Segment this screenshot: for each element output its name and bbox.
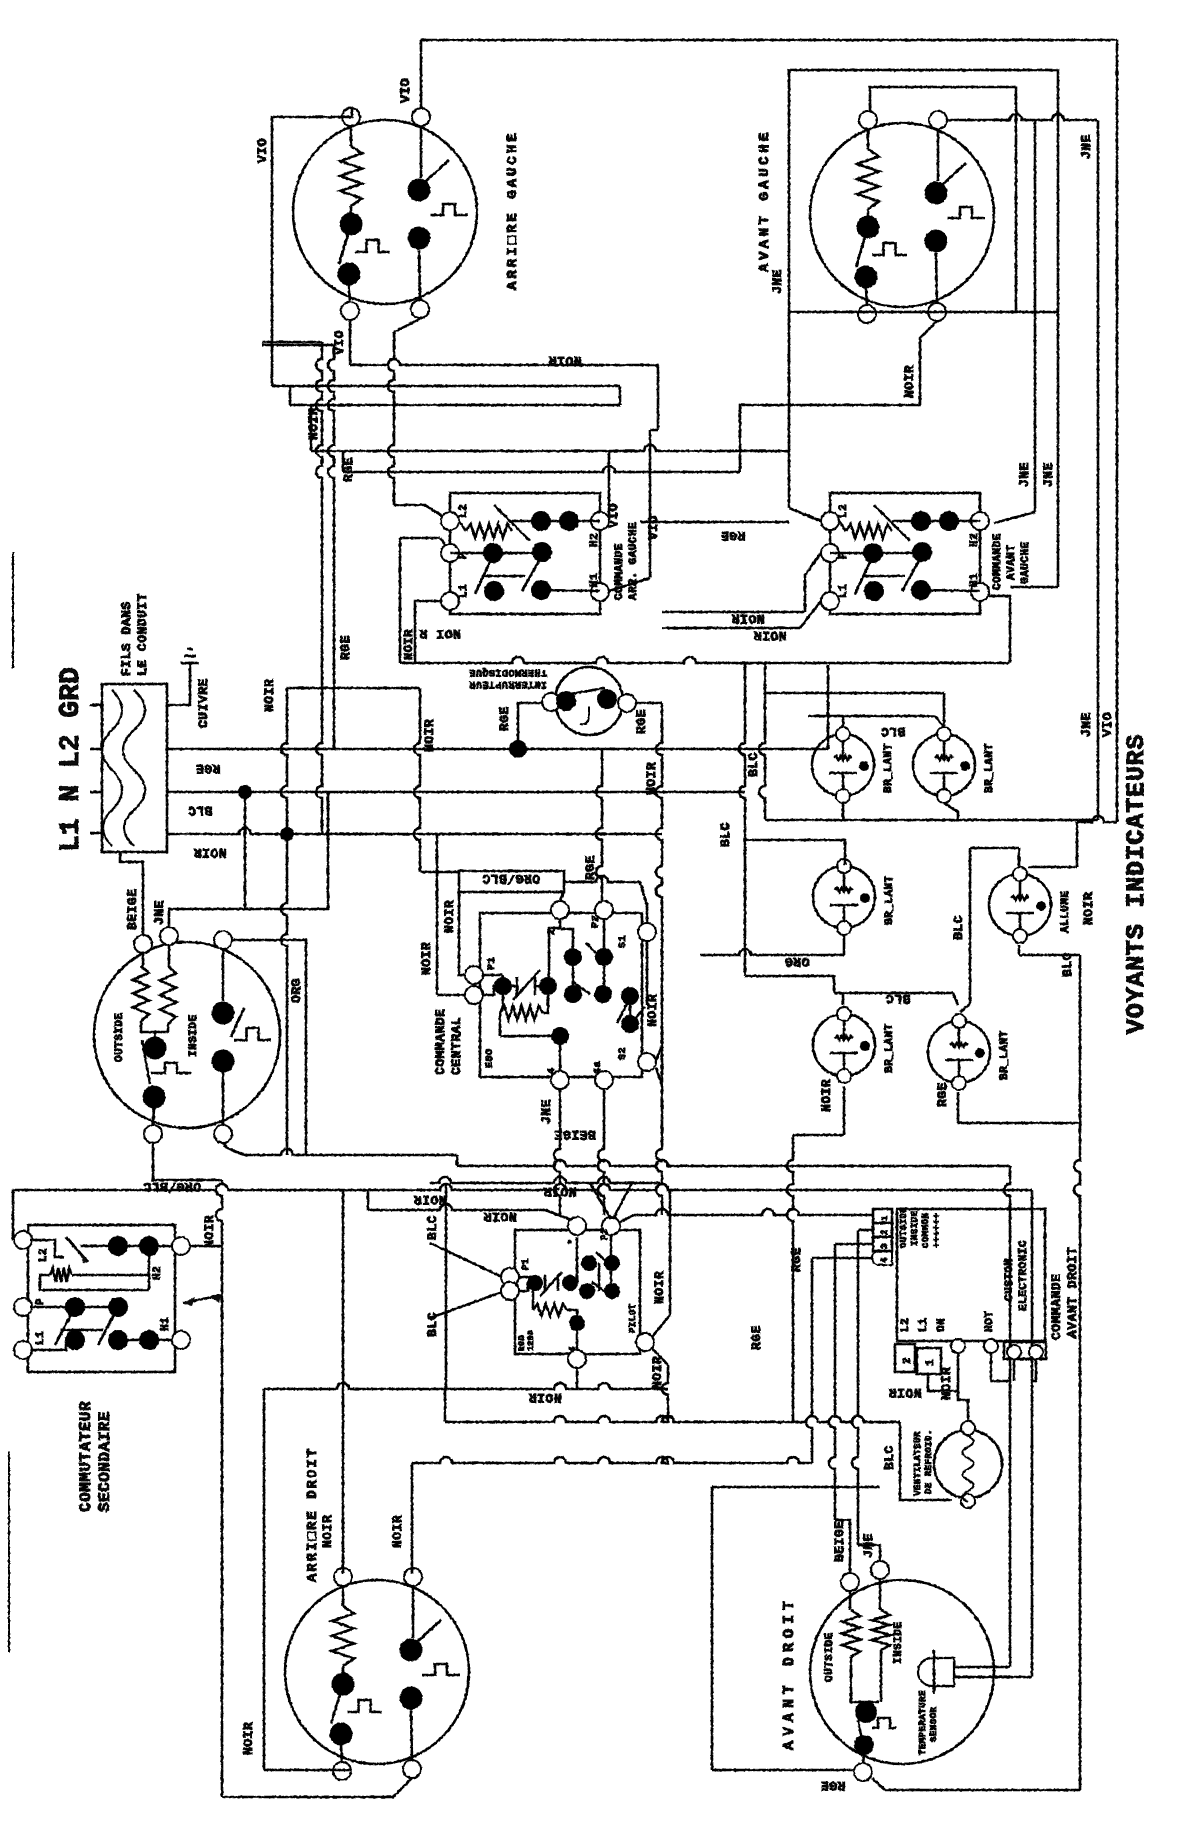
svg-text:NOIR: NOIR bbox=[939, 1367, 954, 1400]
wire VIO top-right to border bbox=[420, 40, 423, 108]
top border wire bbox=[421, 39, 1117, 42]
svg-text:RGE: RGE bbox=[749, 1325, 764, 1350]
wire from terminal box 1 bbox=[928, 1374, 958, 1391]
svg-text:AVANT DROIT: AVANT DROIT bbox=[781, 1596, 798, 1750]
svg-text:S2: S2 bbox=[618, 1047, 629, 1060]
svg-text:JNE: JNE bbox=[1079, 134, 1094, 159]
wire NOIR long run 1215 bbox=[367, 1190, 370, 1210]
svg-text:NOIR: NOIR bbox=[548, 353, 581, 368]
switch front-right bbox=[855, 1701, 877, 1723]
wire NOIR run 1155-1166 bbox=[456, 1155, 459, 1166]
bottom terminals avant droit control bbox=[951, 1339, 965, 1353]
svg-text:L1 N L2 GRD: L1 N L2 GRD bbox=[56, 667, 87, 852]
svg-text:ORG: ORG bbox=[289, 978, 304, 1003]
indicator lamp BR_LANT 4 bbox=[813, 1014, 875, 1076]
svg-text:L1: L1 bbox=[918, 1318, 930, 1332]
svg-text:RGE: RGE bbox=[821, 1778, 846, 1793]
wire BLC diagonals bbox=[430, 1243, 502, 1277]
page edge artifact bbox=[8, 1452, 10, 1652]
wire H1 to NOIR run bbox=[989, 596, 1010, 663]
svg-text:NOIR: NOIR bbox=[650, 1356, 665, 1389]
svg-text:RGE: RGE bbox=[338, 635, 353, 660]
connector pins bbox=[873, 1209, 892, 1223]
resistors front-right bbox=[849, 1591, 852, 1610]
wire NOIR long run 1190 bbox=[12, 1190, 15, 1240]
svg-text:RGE: RGE bbox=[789, 1247, 804, 1272]
wire VIO bottom-left to NOIR run bbox=[349, 321, 352, 365]
svg-text:JNE: JNE bbox=[1079, 712, 1094, 737]
svg-text:VIO: VIO bbox=[255, 138, 270, 163]
burner element ARRIERE GAUCHE bbox=[293, 120, 477, 304]
svg-text:NOIR: NOIR bbox=[528, 1390, 561, 1405]
svg-text:4a: 4a bbox=[593, 1061, 604, 1074]
svg-text:1200: 1200 bbox=[527, 1330, 536, 1351]
right border wire VIO bbox=[1116, 40, 1119, 822]
wire BEIGE bbox=[120, 852, 143, 936]
burner element centre (outside/inside) bbox=[94, 942, 280, 1128]
svg-text:RGE: RGE bbox=[497, 706, 512, 731]
svg-text:NOIR: NOIR bbox=[442, 900, 457, 933]
wire NOIR to P bbox=[805, 553, 821, 612]
svg-text:BLC: BLC bbox=[718, 822, 733, 847]
svg-text:FILS DANS: FILS DANS bbox=[119, 601, 134, 676]
svg-text:CUIVRE: CUIVRE bbox=[196, 678, 211, 728]
switch centre-right bbox=[222, 949, 225, 1001]
svg-text:SENSOR: SENSOR bbox=[929, 1706, 939, 1742]
wire NOIR under rear-right box bbox=[445, 1183, 448, 1389]
svg-text:NOIR: NOIR bbox=[413, 1192, 446, 1207]
svg-text:BEIGE: BEIGE bbox=[554, 1127, 596, 1142]
svg-text:H2: H2 bbox=[969, 533, 981, 547]
svg-text:JNE: JNE bbox=[1017, 462, 1032, 487]
svg-text:INSIDE: INSIDE bbox=[188, 1014, 200, 1057]
indicator lamp BR_LANT 5 bbox=[928, 1021, 990, 1083]
svg-text:AVANT GAUCHE: AVANT GAUCHE bbox=[757, 129, 773, 272]
indicator lamp BR_LANT 2 bbox=[913, 734, 975, 796]
svg-text:NOIR: NOIR bbox=[543, 1184, 576, 1199]
svg-text:P1: P1 bbox=[521, 1258, 531, 1270]
svg-text:NOIR: NOIR bbox=[241, 1722, 256, 1755]
svg-text:H2: H2 bbox=[152, 1266, 164, 1280]
wire RGE bus bbox=[167, 748, 828, 751]
wire JNE bbox=[169, 792, 328, 927]
wire RGE to thermodisc bbox=[518, 703, 542, 749]
wire NOIR mid run 451 bbox=[311, 445, 789, 451]
svg-text:ELECTRONIC: ELECTRONIC bbox=[1018, 1240, 1030, 1311]
wire JNE right edge extension bbox=[1057, 312, 1060, 587]
wire VIO top-left bbox=[272, 108, 352, 386]
svg-text:RGE: RGE bbox=[341, 457, 356, 482]
wire NOIR to L1 bbox=[800, 601, 821, 628]
svg-text:++++++: ++++++ bbox=[932, 1213, 942, 1248]
indicator lamp ALLUME bbox=[989, 874, 1051, 936]
svg-text:VIO: VIO bbox=[1100, 712, 1115, 737]
svg-text:JNE: JNE bbox=[539, 1099, 554, 1124]
svg-text:COMMANDE: COMMANDE bbox=[614, 543, 626, 600]
wire NOIR to commande central feed bbox=[287, 687, 420, 690]
svg-text:BEIGE: BEIGE bbox=[125, 888, 140, 930]
control switch COMMANDE ARR. GAUCHE bbox=[450, 493, 600, 614]
wire inside box from top-left terminal bbox=[870, 87, 1016, 111]
svg-text:L2: L2 bbox=[900, 1318, 912, 1332]
svg-text:JNE: JNE bbox=[1041, 462, 1056, 487]
svg-text:RGE: RGE bbox=[721, 528, 746, 543]
wire RGE from lamp 5 bottom bbox=[957, 1092, 960, 1123]
svg-text:NOIR: NOIR bbox=[902, 365, 917, 398]
svg-text:4: 4 bbox=[547, 1067, 558, 1074]
svg-text:BLC: BLC bbox=[951, 915, 966, 940]
svg-text:2: 2 bbox=[902, 1357, 914, 1364]
svg-text:COMMANDE: COMMANDE bbox=[1049, 1274, 1064, 1340]
svg-text:VOYANTS INDICATEURS: VOYANTS INDICATEURS bbox=[1122, 734, 1151, 1034]
wire VIO mid run 472 bbox=[343, 466, 740, 472]
svg-text:OUTSIDE: OUTSIDE bbox=[899, 1207, 909, 1248]
svg-text:JNE: JNE bbox=[152, 900, 167, 925]
wire BLC lamp top bus bbox=[759, 663, 765, 820]
wire lamp bottoms bus bbox=[842, 803, 845, 820]
svg-text:NOIR: NOIR bbox=[888, 1385, 921, 1400]
svg-text:3: 3 bbox=[880, 1243, 890, 1249]
svg-text:L1: L1 bbox=[458, 584, 470, 598]
svg-text:JNE: JNE bbox=[770, 269, 785, 294]
svg-text:GAUCHE: GAUCHE bbox=[1020, 541, 1032, 584]
svg-text:BLC: BLC bbox=[881, 724, 906, 739]
svg-text:INSIDE: INSIDE bbox=[893, 1621, 905, 1664]
EGO thermostat symbol bbox=[494, 977, 512, 995]
wire RGE riser bbox=[262, 344, 334, 347]
svg-text:LE CONDUIT: LE CONDUIT bbox=[135, 593, 150, 676]
svg-text:L1: L1 bbox=[838, 584, 850, 598]
contacts rear-right box bbox=[581, 1255, 597, 1271]
svg-text:BLC: BLC bbox=[886, 991, 911, 1006]
svg-text:4: 4 bbox=[880, 1257, 890, 1263]
switch COMMUTATEUR SECONDAIRE bbox=[28, 1225, 175, 1372]
svg-text:ORG: ORG bbox=[785, 954, 810, 969]
svg-text:BEIGE: BEIGE bbox=[832, 1520, 847, 1562]
svg-text:NOIR: NOIR bbox=[419, 942, 434, 975]
svg-text:PILOT: PILOT bbox=[628, 1303, 638, 1333]
wire ORG from lamp 3 bbox=[843, 936, 846, 955]
box around front-left burner bbox=[789, 70, 1058, 312]
svg-text:1: 1 bbox=[925, 1359, 937, 1366]
svg-text:AVANT DROIT: AVANT DROIT bbox=[1065, 1247, 1080, 1338]
svg-text:ALLUME: ALLUME bbox=[1060, 890, 1072, 933]
resistor OUTSIDE bbox=[142, 953, 145, 966]
svg-text:RGE: RGE bbox=[196, 761, 221, 776]
indicator lamp BR_LANT 3 bbox=[813, 866, 875, 928]
wire NOIR top rear-right bbox=[430, 1177, 660, 1183]
wire RGE bottom bbox=[712, 1769, 855, 1772]
wire BLC from ALLUME bottom bbox=[1018, 945, 1021, 955]
svg-text:H1: H1 bbox=[969, 573, 981, 587]
svg-text:P: P bbox=[35, 1298, 47, 1305]
wire from rear-left burner lower-right terminal bbox=[394, 319, 420, 332]
wire NOIR from S2 bbox=[656, 1046, 662, 1060]
svg-text:ON: ON bbox=[936, 1318, 948, 1332]
svg-text:BLC: BLC bbox=[882, 1445, 897, 1470]
svg-text:H1: H1 bbox=[589, 573, 601, 587]
svg-text:JNE: JNE bbox=[861, 1533, 876, 1558]
wire NOIR from EGO bbox=[437, 994, 465, 997]
wire BLC to lamp 4 and 6 bbox=[745, 976, 834, 993]
temperature sensor bbox=[918, 1658, 954, 1686]
switch contacts commande central bbox=[564, 948, 582, 966]
svg-text:NOIR: NOIR bbox=[262, 679, 277, 712]
wire VIO staircase run bbox=[272, 385, 620, 388]
svg-text:NOIR: NOIR bbox=[753, 628, 786, 643]
wire NOIR left drop bbox=[281, 688, 287, 1155]
svg-text:OUTSIDE: OUTSIDE bbox=[114, 1012, 126, 1062]
control box COMMANDE CENTRAL bbox=[480, 913, 642, 1077]
svg-text:SECONDAIRE: SECONDAIRE bbox=[96, 1411, 114, 1512]
wire NOIR from PILOT bbox=[652, 1348, 668, 1365]
wires from connector pins bbox=[858, 1229, 873, 1232]
wire JNE pin2 bbox=[852, 1230, 858, 1545]
svg-text:VENTILATEUR: VENTILATEUR bbox=[913, 1431, 923, 1496]
svg-text:2: 2 bbox=[880, 1229, 890, 1235]
svg-text:TEMPERATURE: TEMPERATURE bbox=[918, 1690, 928, 1755]
switch centre-left bbox=[144, 1037, 167, 1060]
wire from centre burner bottom-right bbox=[223, 1143, 244, 1155]
burner element ARRIERE DROIT bbox=[285, 1580, 469, 1764]
wire BLC bus bbox=[167, 791, 745, 794]
svg-text:S1: S1 bbox=[618, 935, 629, 948]
svg-text:H2: H2 bbox=[589, 533, 601, 547]
wire JNE drop to lamps bbox=[1097, 120, 1100, 820]
wire P feed from below bbox=[440, 538, 452, 553]
svg-text:NOIR: NOIR bbox=[320, 1515, 335, 1548]
svg-text:NOIR: NOIR bbox=[202, 1215, 217, 1248]
wire NOIR from front-left burner bottom-right bbox=[740, 321, 937, 472]
terminal boxes 2 and 1 bbox=[895, 1344, 915, 1372]
resistor INSIDE bbox=[168, 945, 171, 966]
svg-text:RGE: RGE bbox=[583, 855, 598, 880]
wire NOIR from thermodisc right bbox=[636, 702, 662, 705]
ground symbol CUIVRE (copper) bbox=[167, 663, 190, 705]
svg-text:NOIR: NOIR bbox=[731, 611, 764, 626]
svg-text:1: 1 bbox=[880, 1215, 890, 1221]
wire JNE to H2 bbox=[1034, 120, 1037, 512]
svg-text:VIO: VIO bbox=[606, 503, 621, 528]
wire RGE to front-left L2 bbox=[788, 312, 791, 508]
svg-text:HOT: HOT bbox=[984, 1311, 996, 1332]
svg-text:NOIR: NOIR bbox=[306, 407, 321, 440]
svg-text:L2: L2 bbox=[38, 1248, 50, 1262]
commutateur L1 row bbox=[30, 1340, 66, 1350]
svg-text:EGO: EGO bbox=[485, 1048, 496, 1068]
svg-text:CENTRAL: CENTRAL bbox=[449, 1017, 464, 1075]
svg-text:ARRI□RE GAUCHE: ARRI□RE GAUCHE bbox=[505, 130, 521, 290]
wire BLC from ALLUME top to lamp 6 bbox=[1018, 848, 1021, 866]
junction dot on NOIR bbox=[280, 827, 294, 841]
wire NOIR riser left bbox=[342, 1190, 345, 1574]
wire RGE drop to P2 bbox=[596, 749, 602, 901]
svg-text:NOIR: NOIR bbox=[652, 1271, 667, 1304]
svg-text:COMMUTATEUR: COMMUTATEUR bbox=[77, 1401, 95, 1512]
burner element AVANT GAUCHE bbox=[810, 123, 994, 307]
conduit box FILS DANS LE CONDUIT bbox=[102, 684, 167, 852]
svg-text:BLC: BLC bbox=[188, 803, 213, 818]
svg-text:COMMANDE: COMMANDE bbox=[992, 533, 1004, 590]
svg-text:ORG/BLC: ORG/BLC bbox=[143, 1179, 201, 1194]
wire BLC drop bbox=[244, 792, 247, 909]
wire NOIR riser bbox=[262, 341, 322, 344]
page edge artifact bbox=[12, 552, 14, 668]
wire NOIR from lamp 4 bottom bbox=[843, 1086, 846, 1135]
svg-text:BR_LANT: BR_LANT bbox=[884, 1023, 896, 1073]
svg-text:NOIR: NOIR bbox=[422, 719, 437, 752]
svg-text:VIO: VIO bbox=[646, 515, 661, 540]
svg-text:AVANT: AVANT bbox=[1006, 544, 1018, 580]
svg-text:ARR. GAUCHE: ARR. GAUCHE bbox=[628, 522, 640, 600]
control box COMMANDE AVANT DROIT custom electronic bbox=[897, 1209, 1045, 1341]
wire NOIR bus bbox=[167, 828, 662, 834]
internal wires commande central bbox=[483, 974, 503, 977]
svg-text:DE REFROID.: DE REFROID. bbox=[924, 1429, 934, 1494]
wire NOIR from L1 run bbox=[415, 601, 441, 663]
wire BEIGE pin3 bbox=[829, 1244, 835, 1520]
svg-text:NOIR: NOIR bbox=[819, 1079, 834, 1112]
wire ORG/BLC label box bbox=[459, 871, 564, 892]
thermodisc interrupter bbox=[555, 667, 623, 735]
svg-text:NOIR: NOIR bbox=[193, 845, 226, 860]
wire NOIR long 1422 bbox=[445, 1416, 900, 1422]
wire pin4 to rear-right burner bbox=[806, 1258, 812, 1463]
svg-text:INSIDE: INSIDE bbox=[910, 1210, 920, 1246]
wire VIO H2 riser bbox=[608, 451, 611, 517]
wire VIO to ALLUME lamp bbox=[1077, 816, 1117, 822]
junction of two resistors bbox=[141, 1021, 168, 1032]
svg-text:THERMODISQUE: THERMODISQUE bbox=[469, 666, 547, 677]
big box left rear-right bbox=[263, 1389, 266, 1770]
svg-text:L2: L2 bbox=[838, 504, 850, 518]
wire VIO H1 riser bbox=[609, 578, 650, 591]
svg-text:COMMANDE: COMMANDE bbox=[433, 1009, 448, 1075]
svg-text:BR_LANT: BR_LANT bbox=[883, 743, 895, 793]
svg-text:BLC: BLC bbox=[425, 1215, 440, 1240]
svg-text:P2: P2 bbox=[591, 915, 602, 928]
svg-text:NOIR: NOIR bbox=[1081, 892, 1096, 925]
svg-text:COMMON: COMMON bbox=[921, 1213, 931, 1248]
indicator lamp BR_LANT 1 bbox=[812, 734, 874, 796]
fan VENTILATEUR DE REFROID bbox=[934, 1430, 1002, 1498]
wire JNE long vertical bbox=[946, 114, 1097, 120]
wire NOIR riser right bbox=[411, 1463, 414, 1574]
svg-text:BLC: BLC bbox=[425, 1312, 440, 1337]
box around front-right burner bbox=[712, 1486, 880, 1489]
svg-text:H1: H1 bbox=[160, 1317, 172, 1331]
wire BEIGE from pin 4a bbox=[598, 1089, 604, 1215]
svg-text:BR_LANT: BR_LANT bbox=[999, 1030, 1011, 1080]
svg-text:RGE: RGE bbox=[935, 1082, 950, 1107]
svg-text:P1: P1 bbox=[487, 957, 498, 970]
svg-text:OUTSIDE: OUTSIDE bbox=[824, 1632, 836, 1682]
svg-text:NOIR: NOIR bbox=[390, 1515, 405, 1548]
svg-text:L2: L2 bbox=[458, 504, 470, 518]
junction dot RGE to thermodisc bbox=[509, 740, 527, 758]
svg-text:CUSTOM: CUSTOM bbox=[1004, 1258, 1016, 1301]
svg-text:NOIR: NOIR bbox=[644, 762, 659, 795]
commutateur P row bbox=[30, 1306, 118, 1309]
wire ORG bbox=[232, 940, 306, 1155]
svg-text:L1: L1 bbox=[35, 1331, 47, 1345]
wire JNE from pin 4 bbox=[554, 1089, 560, 1215]
svg-text:RGE: RGE bbox=[634, 709, 649, 734]
svg-text:P2: P2 bbox=[600, 1228, 610, 1240]
control box COMMANDE ARRIERE DROIT bbox=[515, 1230, 640, 1354]
EGO symbol rear-right bbox=[527, 1275, 543, 1291]
svg-text:VIO: VIO bbox=[398, 78, 413, 103]
svg-text:BR_LANT: BR_LANT bbox=[884, 875, 896, 925]
wire rear-right burner bottom bbox=[341, 1769, 350, 1772]
svg-text:BLC: BLC bbox=[746, 752, 761, 777]
wire HOT down bbox=[991, 1353, 1009, 1381]
svg-text:ARRI□RE DROIT: ARRI□RE DROIT bbox=[305, 1447, 321, 1582]
svg-text:RGD: RGD bbox=[518, 1335, 527, 1351]
wire H2 to ORG/BLC drop bbox=[190, 1245, 222, 1248]
svg-text:ORG/BLC: ORG/BLC bbox=[482, 871, 540, 886]
svg-text:NOIR: NOIR bbox=[483, 1209, 516, 1224]
svg-text:INTERRUPTEUR: INTERRUPTEUR bbox=[469, 678, 547, 689]
control switch COMMANDE AVANT GAUCHE bbox=[830, 493, 980, 614]
svg-text:NOI R: NOI R bbox=[419, 626, 461, 641]
wire BLC riser to lamp 3 bbox=[739, 663, 745, 976]
svg-text:BLC: BLC bbox=[1060, 952, 1075, 977]
burner element AVANT DROIT bbox=[810, 1580, 994, 1764]
wire NOIR to fan bbox=[958, 1353, 968, 1424]
arrow pointer to commutateur bbox=[183, 1295, 222, 1303]
svg-text:BR_LANT: BR_LANT bbox=[984, 743, 996, 793]
wire ORG/BLC from centre burner bottom-left bbox=[153, 1143, 222, 1180]
junction dot on BLC bbox=[238, 785, 252, 799]
